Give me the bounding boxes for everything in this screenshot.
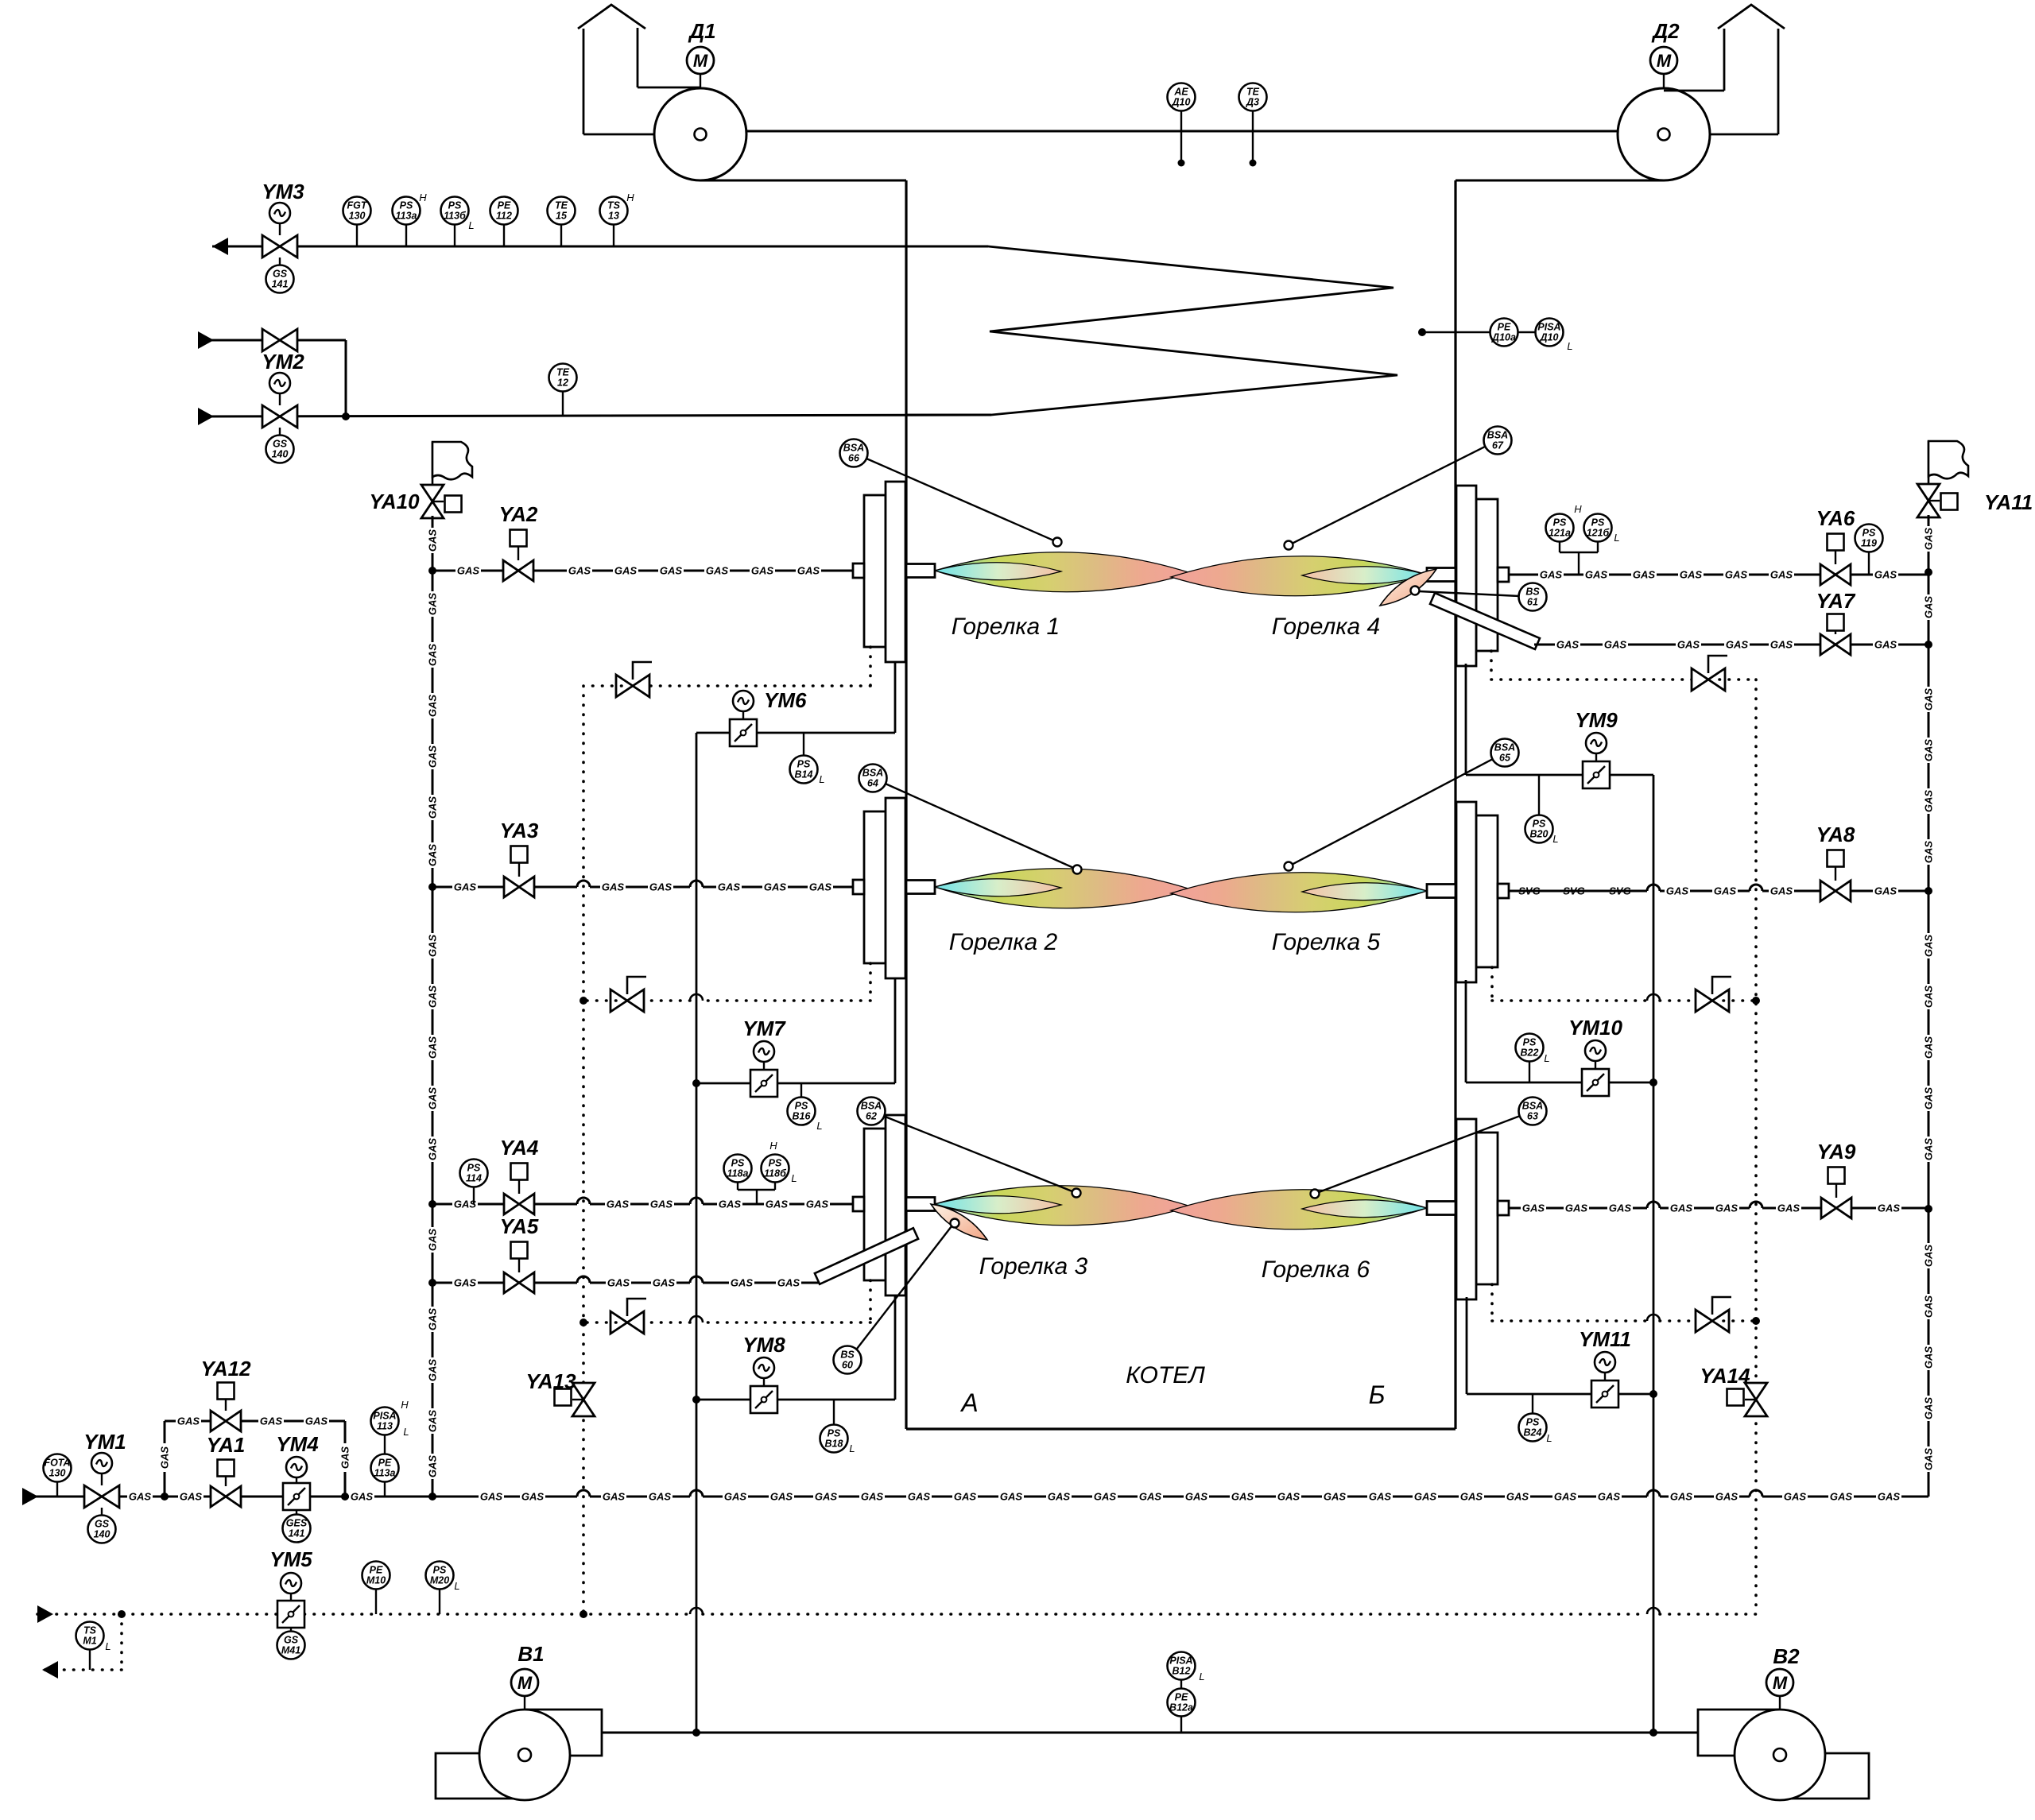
svg-text:GAS: GAS [1460, 1491, 1483, 1503]
svg-text:GAS: GAS [427, 1087, 439, 1110]
svg-text:GAS: GAS [351, 1491, 374, 1503]
svg-text:GAS: GAS [1094, 1491, 1117, 1503]
svg-text:GAS: GAS [568, 565, 591, 577]
svg-text:GAS: GAS [1777, 1202, 1800, 1214]
svg-text:PS: PS [795, 1101, 808, 1112]
svg-text:66: 66 [848, 453, 860, 464]
svg-text:PS: PS [433, 1565, 447, 1576]
svg-text:H: H [626, 192, 634, 203]
svg-text:GAS: GAS [1784, 1491, 1807, 1503]
svg-text:YA13: YA13 [525, 1369, 576, 1393]
svg-text:141: 141 [272, 279, 289, 290]
svg-text:PS: PS [1526, 1417, 1540, 1428]
svg-text:GAS: GAS [607, 1198, 630, 1210]
svg-text:YA8: YA8 [1816, 823, 1855, 846]
svg-text:GAS: GAS [1923, 1087, 1935, 1110]
svg-text:YM10: YM10 [1568, 1016, 1622, 1040]
svg-text:GAS: GAS [1666, 885, 1689, 897]
svg-text:SVG: SVG [1563, 885, 1584, 897]
svg-text:Д10а: Д10а [1491, 332, 1516, 343]
svg-text:L: L [1614, 532, 1619, 544]
svg-text:GAS: GAS [1923, 935, 1935, 958]
svg-text:BSA: BSA [861, 1101, 882, 1112]
svg-text:15: 15 [556, 211, 568, 222]
svg-text:GAS: GAS [1540, 569, 1563, 581]
svg-text:GAS: GAS [427, 1359, 439, 1382]
svg-text:GAS: GAS [815, 1491, 838, 1503]
svg-text:GAS: GAS [1598, 1491, 1621, 1503]
svg-text:В24: В24 [1524, 1427, 1542, 1439]
svg-text:М1: М1 [83, 1636, 96, 1647]
svg-text:YM11: YM11 [1579, 1327, 1631, 1351]
svg-text:GAS: GAS [602, 881, 625, 893]
svg-text:GAS: GAS [427, 1036, 439, 1059]
svg-text:GAS: GAS [719, 1198, 742, 1210]
svg-text:YM4: YM4 [276, 1432, 319, 1456]
svg-text:GS: GS [273, 439, 288, 450]
svg-text:112: 112 [496, 211, 512, 222]
svg-text:SVG: SVG [1518, 885, 1540, 897]
svg-text:GAS: GAS [1878, 1491, 1901, 1503]
svg-text:GAS: GAS [427, 935, 439, 958]
svg-text:L: L [1567, 340, 1572, 352]
svg-text:114: 114 [466, 1173, 482, 1184]
svg-text:Горелка 4: Горелка 4 [1272, 614, 1380, 640]
svg-text:M: M [693, 51, 708, 71]
svg-text:113а: 113а [396, 211, 417, 222]
svg-text:Д2: Д2 [1651, 19, 1680, 43]
svg-text:GAS: GAS [1522, 1202, 1545, 1214]
svg-text:YA1: YA1 [207, 1433, 246, 1457]
svg-text:GAS: GAS [521, 1491, 545, 1503]
svg-text:GAS: GAS [1506, 1491, 1529, 1503]
svg-text:PS: PS [467, 1163, 481, 1174]
svg-text:GAS: GAS [1923, 986, 1935, 1009]
svg-text:В22: В22 [1521, 1047, 1539, 1059]
svg-text:M: M [517, 1673, 533, 1693]
svg-text:L: L [849, 1442, 855, 1454]
svg-text:PE: PE [1498, 322, 1511, 333]
svg-text:BSA: BSA [843, 443, 864, 454]
svg-text:TE: TE [1246, 87, 1260, 98]
svg-text:L: L [1546, 1432, 1552, 1444]
svg-text:М10: М10 [366, 1575, 386, 1586]
svg-text:L: L [454, 1580, 459, 1592]
svg-text:YM8: YM8 [742, 1333, 785, 1357]
svg-text:GAS: GAS [1414, 1491, 1437, 1503]
svg-text:TE: TE [555, 200, 568, 211]
svg-text:BSA: BSA [1494, 742, 1515, 753]
svg-text:GAS: GAS [731, 1277, 754, 1289]
svg-text:12: 12 [557, 378, 568, 389]
svg-text:GS: GS [95, 1519, 110, 1530]
svg-text:YA12: YA12 [200, 1357, 251, 1380]
svg-text:121б: 121б [1587, 528, 1611, 539]
svg-text:GAS: GAS [1830, 1491, 1853, 1503]
svg-text:L: L [403, 1426, 409, 1438]
svg-text:YA3: YA3 [500, 819, 539, 842]
svg-text:113а: 113а [374, 1468, 396, 1479]
svg-text:65: 65 [1499, 753, 1511, 764]
svg-text:GAS: GAS [480, 1491, 503, 1503]
svg-text:M: M [1773, 1673, 1788, 1693]
svg-text:GAS: GAS [908, 1491, 931, 1503]
svg-text:GAS: GAS [1923, 739, 1935, 762]
svg-text:В12: В12 [1173, 1666, 1191, 1677]
svg-text:GAS: GAS [1770, 885, 1793, 897]
svg-text:Горелка 3: Горелка 3 [979, 1253, 1088, 1280]
svg-text:63: 63 [1527, 1111, 1538, 1122]
svg-text:GAS: GAS [809, 881, 832, 893]
svg-text:М41: М41 [281, 1645, 300, 1656]
svg-text:М20: М20 [430, 1575, 449, 1586]
svg-text:61: 61 [1527, 597, 1538, 608]
svg-text:Горелка 1: Горелка 1 [952, 614, 1060, 640]
svg-text:GAS: GAS [1923, 1036, 1935, 1059]
svg-text:GAS: GAS [777, 1277, 800, 1289]
svg-text:GAS: GAS [454, 1277, 477, 1289]
svg-text:BS: BS [1525, 587, 1540, 598]
svg-text:YA5: YA5 [500, 1214, 539, 1238]
svg-text:GAS: GAS [1874, 569, 1897, 581]
svg-text:В12а: В12а [1169, 1702, 1193, 1714]
svg-text:GAS: GAS [1369, 1491, 1392, 1503]
svg-text:YM3: YM3 [262, 180, 304, 203]
svg-text:GAS: GAS [1554, 1491, 1577, 1503]
svg-text:L: L [819, 773, 824, 785]
svg-text:GAS: GAS [1585, 569, 1608, 581]
svg-text:FOTA: FOTA [44, 1458, 70, 1469]
svg-text:YM1: YM1 [83, 1430, 126, 1454]
svg-text:GAS: GAS [427, 844, 439, 867]
svg-text:GAS: GAS [861, 1491, 884, 1503]
svg-text:PS: PS [1523, 1037, 1537, 1048]
svg-text:113: 113 [377, 1421, 393, 1432]
svg-text:YM7: YM7 [742, 1016, 786, 1040]
svg-text:TE: TE [556, 367, 570, 378]
svg-text:GAS: GAS [427, 796, 439, 819]
svg-text:GAS: GAS [180, 1491, 203, 1503]
svg-text:62: 62 [866, 1111, 877, 1122]
svg-text:GAS: GAS [1714, 885, 1737, 897]
svg-text:GAS: GAS [1139, 1491, 1162, 1503]
svg-text:140: 140 [94, 1529, 110, 1540]
svg-text:GAS: GAS [770, 1491, 793, 1503]
svg-text:PS: PS [828, 1428, 841, 1439]
svg-text:GAS: GAS [766, 1198, 789, 1210]
svg-text:BSA: BSA [1487, 430, 1508, 441]
svg-text:Д10: Д10 [1172, 97, 1191, 108]
svg-text:PS: PS [1591, 517, 1605, 529]
svg-text:GAS: GAS [1604, 639, 1627, 651]
svg-text:YM2: YM2 [262, 350, 304, 374]
svg-text:PS: PS [731, 1158, 745, 1169]
svg-text:PISA: PISA [1169, 1655, 1192, 1667]
svg-text:GAS: GAS [260, 1415, 283, 1427]
svg-text:В18: В18 [825, 1439, 843, 1450]
svg-text:GAS: GAS [1609, 1202, 1632, 1214]
svg-text:GAS: GAS [751, 565, 774, 577]
svg-text:GAS: GAS [454, 881, 477, 893]
svg-text:BSA: BSA [862, 768, 883, 779]
svg-text:GAS: GAS [1923, 1138, 1935, 1161]
svg-text:AE: AE [1173, 87, 1188, 98]
svg-text:L: L [468, 219, 474, 231]
svg-text:BSA: BSA [1522, 1101, 1543, 1112]
svg-text:GAS: GAS [1770, 569, 1793, 581]
svg-text:60: 60 [842, 1360, 853, 1371]
svg-text:GAS: GAS [603, 1491, 626, 1503]
svg-text:GAS: GAS [764, 881, 787, 893]
svg-text:TS: TS [607, 200, 621, 211]
svg-text:GAS: GAS [1923, 1397, 1935, 1420]
svg-text:GES: GES [286, 1518, 308, 1529]
svg-text:GAS: GAS [614, 565, 638, 577]
svg-text:130: 130 [349, 211, 366, 222]
svg-text:GAS: GAS [1677, 639, 1700, 651]
svg-text:H: H [401, 1399, 409, 1411]
svg-text:H: H [419, 192, 427, 203]
svg-text:YM6: YM6 [764, 688, 807, 712]
svg-text:GAS: GAS [1923, 1295, 1935, 1319]
svg-text:Горелка 2: Горелка 2 [949, 929, 1058, 955]
svg-text:M: M [1657, 51, 1672, 71]
svg-text:GAS: GAS [427, 1308, 439, 1331]
svg-text:GAS: GAS [427, 1410, 439, 1433]
svg-text:Горелка 5: Горелка 5 [1272, 929, 1381, 955]
svg-text:119: 119 [1861, 538, 1877, 549]
svg-text:GAS: GAS [797, 565, 820, 577]
svg-text:YA10: YA10 [369, 490, 420, 513]
svg-text:L: L [791, 1172, 797, 1184]
svg-text:PISA: PISA [373, 1411, 396, 1422]
svg-text:GAS: GAS [427, 644, 439, 667]
svg-text:64: 64 [867, 778, 878, 789]
svg-text:GAS: GAS [1923, 528, 1935, 551]
svg-text:13: 13 [608, 211, 619, 222]
svg-text:GAS: GAS [339, 1446, 351, 1470]
svg-text:GAS: GAS [724, 1491, 747, 1503]
svg-text:GAS: GAS [649, 881, 673, 893]
svg-text:118б: 118б [764, 1168, 787, 1179]
svg-text:GAS: GAS [806, 1198, 829, 1210]
svg-text:GAS: GAS [650, 1198, 673, 1210]
svg-text:L: L [1544, 1052, 1549, 1064]
svg-text:GAS: GAS [1670, 1202, 1693, 1214]
svg-text:GAS: GAS [427, 745, 439, 769]
svg-text:GAS: GAS [427, 593, 439, 616]
svg-text:GAS: GAS [1770, 639, 1793, 651]
svg-text:GAS: GAS [1680, 569, 1703, 581]
svg-text:GAS: GAS [427, 695, 439, 718]
svg-text:PS: PS [448, 200, 462, 211]
svg-text:Горелка 6: Горелка 6 [1262, 1257, 1370, 1283]
svg-text:PS: PS [1553, 517, 1567, 529]
svg-text:YM9: YM9 [1575, 708, 1618, 732]
svg-text:PE: PE [498, 200, 511, 211]
svg-text:YA9: YA9 [1817, 1140, 1856, 1164]
svg-text:YA6: YA6 [1816, 506, 1855, 530]
svg-text:GAS: GAS [1923, 841, 1935, 864]
svg-text:GAS: GAS [177, 1415, 200, 1427]
svg-text:GAS: GAS [1923, 688, 1935, 711]
svg-text:PS: PS [1533, 819, 1546, 830]
svg-text:PS: PS [769, 1158, 782, 1169]
svg-text:GAS: GAS [427, 986, 439, 1009]
svg-text:GAS: GAS [1923, 1346, 1935, 1369]
svg-text:GAS: GAS [1923, 1448, 1935, 1471]
svg-text:В2: В2 [1773, 1644, 1800, 1668]
svg-text:130: 130 [49, 1468, 66, 1479]
svg-text:GAS: GAS [1923, 790, 1935, 813]
svg-text:GAS: GAS [1923, 1245, 1935, 1268]
svg-text:Д10: Д10 [1540, 332, 1559, 343]
svg-text:PS: PS [400, 200, 413, 211]
svg-text:SVG: SVG [1609, 885, 1630, 897]
svg-text:GAS: GAS [1000, 1491, 1023, 1503]
svg-text:BS: BS [840, 1350, 855, 1361]
svg-text:PS: PS [1863, 528, 1876, 539]
svg-text:L: L [105, 1640, 110, 1652]
svg-text:121а: 121а [1549, 528, 1571, 539]
svg-text:GAS: GAS [653, 1277, 676, 1289]
svg-text:PE: PE [378, 1458, 392, 1469]
svg-text:113б: 113б [444, 211, 467, 222]
svg-text:H: H [1574, 503, 1582, 515]
svg-text:FGT: FGT [347, 200, 368, 211]
svg-text:GAS: GAS [457, 565, 480, 577]
svg-text:GAS: GAS [427, 1138, 439, 1161]
svg-text:YM5: YM5 [269, 1547, 312, 1571]
svg-text:GAS: GAS [660, 565, 683, 577]
svg-text:GAS: GAS [1874, 639, 1897, 651]
svg-text:GAS: GAS [1231, 1491, 1254, 1503]
svg-text:GAS: GAS [1878, 1202, 1901, 1214]
svg-text:GAS: GAS [1185, 1491, 1208, 1503]
svg-text:GAS: GAS [1715, 1202, 1738, 1214]
svg-text:GAS: GAS [1277, 1491, 1300, 1503]
svg-text:В20: В20 [1530, 829, 1549, 840]
svg-text:Д3: Д3 [1246, 97, 1259, 108]
svg-text:L: L [1199, 1671, 1204, 1683]
svg-text:GAS: GAS [427, 1455, 439, 1478]
svg-text:67: 67 [1492, 440, 1504, 451]
svg-text:GAS: GAS [706, 565, 729, 577]
svg-text:YA7: YA7 [1816, 589, 1856, 613]
svg-text:GAS: GAS [1565, 1202, 1588, 1214]
svg-text:L: L [816, 1120, 822, 1132]
svg-text:GAS: GAS [1633, 569, 1656, 581]
svg-text:PISA: PISA [1537, 322, 1560, 333]
svg-text:YA2: YA2 [499, 502, 538, 526]
svg-text:В14: В14 [795, 769, 813, 780]
svg-text:YA14: YA14 [1700, 1364, 1750, 1388]
svg-text:H: H [769, 1140, 777, 1152]
svg-text:GAS: GAS [718, 881, 741, 893]
svg-text:GAS: GAS [1725, 569, 1748, 581]
svg-text:GAS: GAS [129, 1491, 152, 1503]
svg-text:YA4: YA4 [500, 1136, 539, 1160]
svg-text:Д1: Д1 [688, 19, 715, 43]
svg-text:L: L [1552, 833, 1558, 845]
svg-text:141: 141 [289, 1528, 305, 1539]
svg-text:GAS: GAS [954, 1491, 977, 1503]
svg-text:YA11: YA11 [1984, 490, 2033, 514]
svg-text:GAS: GAS [1923, 596, 1935, 619]
svg-text:GAS: GAS [427, 1229, 439, 1252]
svg-text:PE: PE [370, 1565, 383, 1576]
svg-text:GAS: GAS [1048, 1491, 1071, 1503]
svg-text:В1: В1 [517, 1642, 544, 1666]
svg-text:GAS: GAS [649, 1491, 672, 1503]
svg-text:GS: GS [273, 269, 288, 280]
svg-text:GAS: GAS [1715, 1491, 1738, 1503]
svg-text:PE: PE [1175, 1692, 1188, 1703]
svg-text:GAS: GAS [305, 1415, 328, 1427]
svg-text:GAS: GAS [1556, 639, 1580, 651]
svg-text:Б: Б [1369, 1380, 1386, 1409]
svg-text:В16: В16 [793, 1111, 812, 1122]
svg-text:GAS: GAS [1726, 639, 1749, 651]
svg-text:КОТЕЛ: КОТЕЛ [1126, 1362, 1205, 1388]
svg-text:PS: PS [797, 759, 811, 770]
svg-text:GS: GS [284, 1635, 299, 1646]
svg-text:118а: 118а [727, 1168, 749, 1179]
svg-text:GAS: GAS [427, 529, 439, 552]
svg-text:GAS: GAS [607, 1277, 630, 1289]
svg-text:GAS: GAS [1670, 1491, 1693, 1503]
svg-text:140: 140 [272, 449, 289, 460]
svg-text:GAS: GAS [1874, 885, 1897, 897]
svg-text:GAS: GAS [1324, 1491, 1347, 1503]
svg-text:GAS: GAS [159, 1446, 171, 1470]
svg-text:TS: TS [83, 1625, 97, 1636]
svg-text:А: А [959, 1388, 978, 1417]
